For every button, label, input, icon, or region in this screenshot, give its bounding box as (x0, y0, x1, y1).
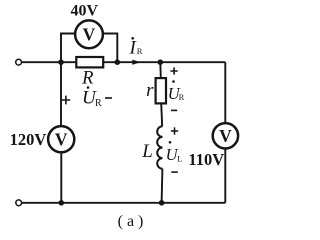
wire: top voltmeter loop (right horizontal + down) (103, 34, 118, 63)
svg-text:r: r (146, 80, 154, 101)
resistor r box (156, 78, 166, 103)
label: minus of U_R (r branch) (171, 110, 177, 112)
wire: middle branch between r and inductor (161, 103, 162, 126)
node: junction dot bottom left branch (59, 200, 65, 206)
terminal: top-left open circle (16, 59, 22, 65)
label: + of U_R (r branch) (171, 67, 178, 74)
svg-text:V: V (219, 126, 232, 146)
wire: left branch vertical (upper, to 120V voltmeter) (60, 62, 62, 126)
resistor R box (76, 57, 103, 67)
label: + of U_L (171, 127, 178, 134)
wire: left branch vertical (lower, from 120V voltmeter) (60, 152, 62, 203)
svg-text:40V: 40V (71, 3, 99, 20)
svg-text:V: V (55, 129, 68, 149)
label: + of U_R (series R) (62, 96, 71, 105)
label: minus of U_R (series R) (105, 97, 112, 99)
node: junction dot at R left / left branch (58, 59, 64, 65)
svg-text:R: R (95, 98, 102, 109)
terminal: bottom-left open circle (16, 200, 22, 206)
voltmeter (110V) circle (213, 123, 238, 148)
svg-text:R: R (179, 92, 185, 102)
svg-text:120V: 120V (10, 130, 47, 149)
voltmeter (40V) circle (75, 20, 103, 48)
wire: right vertical (upper, to 110V voltmeter) (224, 62, 226, 123)
wire: right vertical (lower, from 110V voltmeter) (224, 149, 226, 203)
node: junction dot bottom middle branch (159, 200, 165, 206)
wire: middle branch lower (inductor to bottom wire) (161, 169, 164, 203)
svg-text:( a ): ( a ) (118, 213, 144, 230)
wire: top voltmeter loop (left up + horizontal) (61, 34, 76, 63)
svg-text:R: R (81, 69, 93, 89)
svg-text:R: R (137, 46, 143, 56)
voltmeter (120V) circle (48, 126, 74, 152)
node: junction dot at middle branch top (158, 59, 164, 65)
wire: top main horizontal (22, 61, 226, 63)
svg-text:L: L (141, 141, 153, 162)
inductor L coil (157, 126, 162, 168)
svg-text:110V: 110V (188, 150, 224, 169)
label: minus of U_L (171, 171, 178, 173)
svg-text:L: L (177, 154, 182, 164)
wire: middle branch upper (node to resistor r) (159, 62, 162, 78)
wire: bottom main horizontal (22, 202, 225, 204)
arrow: current direction I_R (132, 60, 141, 65)
node: junction dot at R right / voltmeter loop (115, 59, 121, 65)
svg-text:V: V (83, 25, 96, 45)
